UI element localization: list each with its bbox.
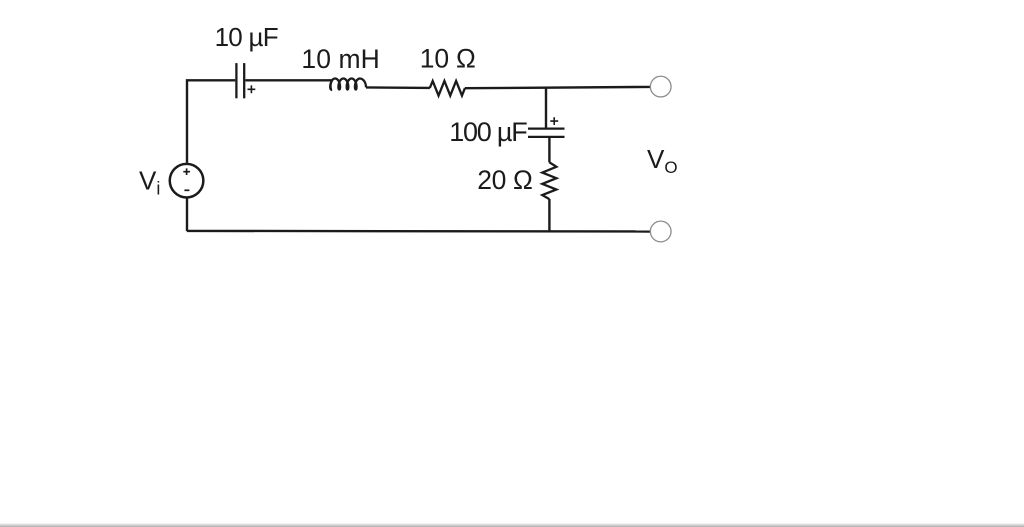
plus sign inside source [183, 168, 190, 175]
capacitor C2 100uF top plate [528, 128, 565, 130]
svg-text:100 µF: 100 µF [449, 117, 528, 147]
svg-text:Vi: Vi [139, 165, 160, 198]
svg-text:20 Ω: 20 Ω [477, 165, 533, 195]
wire C1 to L1 [245, 79, 332, 81]
wire L1 to R1 [366, 86, 430, 89]
wire R1 to node and terminal [465, 87, 651, 88]
wire left vertical bottom segment [186, 199, 188, 232]
wire left vertical top segment [187, 80, 235, 163]
capacitor C2 bottom plate [528, 136, 565, 138]
svg-text:10 Ω: 10 Ω [420, 43, 476, 73]
svg-text:VO: VO [647, 144, 678, 177]
capacitor C1 right plate [243, 63, 245, 98]
plus sign at C2 [550, 117, 558, 125]
resistor R1 10ohm zigzag [430, 81, 465, 96]
resistor R2 20ohm vertical zigzag [542, 162, 556, 199]
voltage source Vi [170, 164, 204, 198]
wire C2 to R2 [548, 137, 550, 163]
plus sign at C1 [248, 85, 256, 93]
capacitor C1 10uF left plate [235, 63, 237, 98]
minus sign inside source [184, 189, 189, 191]
terminal top circle [650, 76, 671, 97]
wire R2 to bottom [548, 199, 550, 231]
svg-text:10 mH: 10 mH [301, 44, 379, 74]
terminal bottom circle [650, 221, 671, 242]
node junction vertical wire to C2 [545, 88, 547, 129]
bottom wire [187, 230, 650, 233]
svg-text:10 µF: 10 µF [215, 22, 279, 52]
inductor L1 coil [330, 79, 366, 90]
